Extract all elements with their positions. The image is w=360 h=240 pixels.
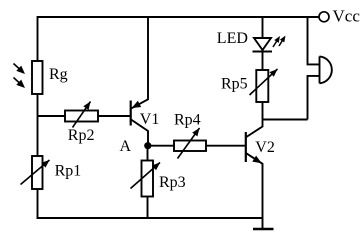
ground	[253, 228, 274, 230]
svg-text:Rg: Rg	[49, 66, 68, 83]
terminal Vcc	[319, 12, 329, 22]
wire speaker branch lower	[308, 76, 320, 120]
wire top rail	[38, 16, 320, 18]
svg-text:LED: LED	[217, 30, 248, 47]
potentiometer Rp5	[256, 70, 268, 102]
speaker / earphone	[320, 56, 332, 83]
potentiometer Rp2	[65, 111, 98, 122]
transistor V2 base bar	[245, 132, 247, 162]
wire Rp2 branch	[38, 115, 130, 117]
transistor V1 emitter	[131, 17, 148, 108]
svg-text:Rp3: Rp3	[159, 174, 186, 191]
svg-text:Rp4: Rp4	[174, 112, 201, 129]
LED D1	[254, 38, 271, 50]
wire LED branch	[262, 17, 264, 120]
wire left rail	[37, 16, 39, 218]
svg-text:Rp5: Rp5	[221, 76, 248, 93]
svg-text:Vcc: Vcc	[333, 6, 360, 25]
wire node A to V2 base	[148, 145, 245, 147]
resistor Rg	[32, 61, 43, 94]
wire bottom rail	[37, 217, 263, 219]
potentiometer Rp4	[174, 141, 206, 152]
svg-text:A: A	[120, 138, 132, 155]
svg-text:Rp2: Rp2	[68, 127, 95, 144]
wire node A to bottom rail (Rp3 branch)	[147, 146, 149, 218]
potentiometer Rp1	[32, 156, 43, 189]
potentiometer Rp3	[142, 161, 154, 197]
svg-text:V2: V2	[255, 139, 275, 156]
photoresistor light arrow 2	[14, 78, 23, 86]
transistor V2 emitter	[246, 153, 262, 229]
transistor V2 collector	[246, 120, 262, 138]
svg-text:Rp1: Rp1	[55, 163, 82, 180]
LED emission arrow 2	[279, 38, 284, 46]
wire speaker branch upper	[308, 17, 320, 64]
svg-text:V1: V1	[140, 111, 160, 128]
transistor V1 collector	[131, 120, 148, 146]
wire collector junction horizontal	[263, 119, 308, 121]
node A	[144, 142, 151, 149]
LED emission arrow 1	[273, 39, 278, 47]
transistor V1 base bar	[130, 101, 132, 126]
photoresistor light arrow 1	[14, 64, 23, 72]
